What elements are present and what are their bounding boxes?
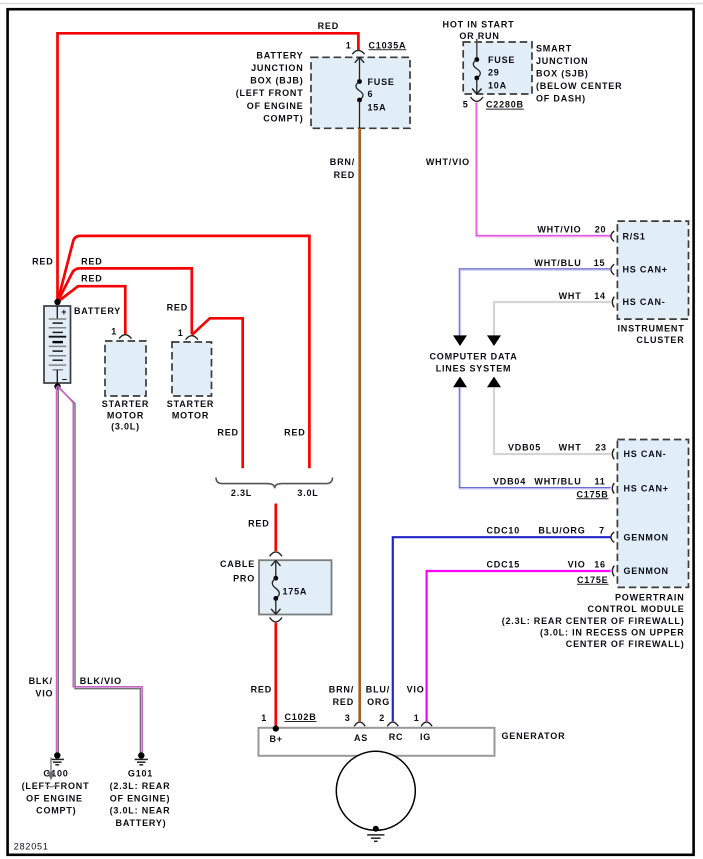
wire RED battery positive to 3.0L starter feed — [58, 236, 310, 468]
node battery positive junction — [54, 299, 60, 305]
wire RED engine feed to cable pro — [248, 504, 276, 552]
wire WHT/VIO SJB fuse 29 to instrument cluster R/S1 — [426, 103, 611, 237]
svg-text:STARTER: STARTER — [167, 399, 214, 409]
svg-text:HS CAN-: HS CAN- — [623, 297, 666, 307]
pin 16 connector GENMON — [612, 566, 669, 577]
instrument cluster module — [617, 221, 688, 345]
connector cable pro top — [270, 552, 282, 556]
svg-text:RED: RED — [32, 256, 53, 266]
svg-text:BLK/: BLK/ — [29, 676, 53, 686]
svg-text:+: + — [61, 307, 67, 317]
svg-text:VIO: VIO — [35, 689, 53, 699]
svg-text:C2280B: C2280B — [486, 100, 524, 110]
svg-text:VIO: VIO — [407, 684, 425, 694]
svg-text:(LEFT FRONT: (LEFT FRONT — [236, 88, 304, 98]
cable pro fuse 175A — [220, 559, 332, 615]
svg-text:6: 6 — [368, 89, 374, 99]
starter motor — [167, 328, 214, 420]
node battery negative junction — [54, 383, 60, 389]
svg-text:282051: 282051 — [14, 841, 49, 851]
svg-text:23: 23 — [595, 442, 607, 452]
wire RED cable pro to generator B+ — [251, 623, 276, 727]
svg-text:20: 20 — [595, 225, 607, 235]
pin 14 connector HS CAN- — [612, 297, 665, 308]
svg-text:R/S1: R/S1 — [623, 231, 646, 241]
svg-text:HS CAN-: HS CAN- — [624, 449, 667, 459]
svg-text:OF ENGINE: OF ENGINE — [247, 101, 304, 111]
svg-text:STARTER: STARTER — [102, 399, 149, 409]
wire BLK/VIO battery negative to G100 — [29, 387, 59, 754]
svg-text:C102B: C102B — [285, 712, 317, 722]
svg-text:BRN/: BRN/ — [329, 684, 354, 694]
svg-text:JUNCTION: JUNCTION — [251, 63, 303, 73]
svg-text:WHT: WHT — [559, 291, 582, 301]
smart junction box (SJB) — [463, 42, 622, 104]
connector C175B — [576, 489, 608, 499]
decorative top rule — [0, 3, 703, 5]
wire VIO PCM 16 to generator IG — [407, 559, 611, 721]
svg-text:COMPT): COMPT) — [36, 806, 76, 816]
wire WHT/BLU instrument cluster 15 to data link — [459, 258, 610, 335]
svg-text:1: 1 — [414, 713, 420, 723]
svg-text:29: 29 — [488, 67, 500, 77]
connector cable pro bottom — [270, 618, 282, 622]
svg-text:(2.3L: REAR CENTER OF FIREWALL: (2.3L: REAR CENTER OF FIREWALL) — [502, 616, 685, 626]
wire RED battery positive to starter motor (3.0L) pin 1 — [58, 274, 126, 334]
ground G101 — [110, 752, 171, 828]
pin 15 connector HS CAN+ — [611, 264, 668, 275]
wire RED battery positive to BJB fuse 6 pin 1 — [32, 21, 358, 304]
starter motor (3.0L) — [102, 327, 149, 432]
battery junction box (BJB) — [236, 50, 410, 128]
svg-text:LINES SYSTEM: LINES SYSTEM — [436, 364, 512, 374]
pin 1 connector C102B at generator B+ — [261, 712, 316, 723]
svg-text:CENTER OF FIREWALL): CENTER OF FIREWALL) — [566, 639, 685, 649]
connector C175E — [577, 575, 609, 585]
pin 1 connector C1035A — [346, 40, 407, 54]
svg-text:BRN/: BRN/ — [330, 157, 355, 167]
svg-text:RED: RED — [284, 427, 305, 437]
svg-text:POWERTRAIN: POWERTRAIN — [615, 593, 685, 603]
pin 1 connector starter motor (3.0L) — [119, 335, 131, 339]
svg-text:CLUSTER: CLUSTER — [636, 335, 684, 345]
svg-text:G101: G101 — [128, 769, 153, 779]
svg-text:RED: RED — [318, 21, 339, 31]
svg-text:WHT/BLU: WHT/BLU — [534, 477, 581, 487]
svg-text:FUSE: FUSE — [368, 77, 395, 87]
svg-text:C175B: C175B — [576, 489, 608, 499]
svg-text:11: 11 — [594, 477, 605, 487]
svg-text:FUSE: FUSE — [488, 55, 515, 65]
svg-text:(3.0L: IN RECESS ON UPPER: (3.0L: IN RECESS ON UPPER — [540, 627, 685, 637]
svg-text:(3.0L: NEAR: (3.0L: NEAR — [110, 806, 171, 816]
svg-text:BATTERY): BATTERY) — [116, 818, 167, 828]
svg-text:175A: 175A — [283, 587, 308, 597]
wire WHT data link to PCM 23 — [494, 387, 611, 454]
svg-text:−: − — [62, 375, 68, 385]
svg-text:(2.3L: REAR: (2.3L: REAR — [110, 781, 171, 791]
svg-text:1: 1 — [111, 327, 117, 337]
powertrain control module (PCM) — [502, 440, 689, 650]
svg-text:5: 5 — [463, 100, 469, 110]
svg-text:INSTRUMENT: INSTRUMENT — [618, 323, 685, 333]
svg-text:(3.0L): (3.0L) — [111, 422, 140, 432]
pin 5 connector C2280B — [463, 97, 524, 110]
svg-text:GENERATOR: GENERATOR — [502, 731, 566, 741]
svg-text:AS: AS — [354, 733, 368, 743]
svg-text:CDC15: CDC15 — [486, 559, 520, 569]
svg-text:G100: G100 — [43, 769, 68, 779]
svg-text:RED: RED — [217, 427, 238, 437]
svg-text:ORG: ORG — [367, 697, 390, 707]
svg-text:MOTOR: MOTOR — [107, 410, 144, 420]
wire BRN/RED BJB fuse 6 to generator AS — [329, 128, 360, 721]
svg-text:RED: RED — [334, 170, 355, 180]
svg-text:1: 1 — [346, 40, 352, 50]
svg-text:2.3L: 2.3L — [231, 488, 252, 498]
svg-text:14: 14 — [594, 291, 606, 301]
svg-text:RED: RED — [81, 274, 102, 284]
svg-text:COMPT): COMPT) — [263, 113, 303, 123]
svg-text:HS CAN+: HS CAN+ — [623, 265, 668, 275]
svg-text:BLU/: BLU/ — [366, 684, 390, 694]
svg-text:RED: RED — [333, 697, 354, 707]
svg-text:OF ENGINE: OF ENGINE — [26, 793, 83, 803]
svg-text:JUNCTION: JUNCTION — [536, 56, 588, 66]
svg-text:OF ENGINE): OF ENGINE) — [110, 793, 171, 803]
pin 1 connector starter motor — [186, 336, 198, 340]
svg-text:PRO: PRO — [233, 574, 255, 584]
svg-text:VIO: VIO — [568, 559, 586, 569]
svg-text:BOX (BJB): BOX (BJB) — [250, 76, 303, 86]
svg-text:VDB04: VDB04 — [493, 477, 526, 487]
fuse 29 10A — [472, 39, 515, 94]
pin 11 connector HS CAN+ — [612, 483, 669, 494]
svg-text:1: 1 — [178, 328, 184, 338]
svg-text:COMPUTER DATA: COMPUTER DATA — [429, 351, 517, 361]
svg-text:16: 16 — [594, 559, 606, 569]
svg-text:10A: 10A — [488, 81, 507, 91]
wire BLU/ORG PCM 7 to generator RC — [366, 526, 611, 722]
pin 2 connector generator RC — [379, 713, 398, 726]
svg-text:MOTOR: MOTOR — [172, 410, 209, 420]
svg-text:RED: RED — [248, 519, 269, 529]
svg-text:RED: RED — [167, 303, 188, 313]
svg-text:7: 7 — [599, 526, 605, 536]
svg-text:HOT IN START: HOT IN START — [443, 20, 515, 30]
node computer data lines system — [429, 335, 517, 387]
svg-text:C175E: C175E — [577, 575, 609, 585]
svg-text:GENMON: GENMON — [624, 566, 669, 576]
svg-text:GENMON: GENMON — [624, 532, 669, 542]
svg-text:BATTERY: BATTERY — [256, 50, 303, 60]
svg-text:15A: 15A — [368, 102, 387, 112]
pin 23 connector HS CAN- — [612, 449, 666, 460]
pin 7 connector GENMON — [611, 532, 669, 543]
wire RED starter motor pin 1 to 2.3L feed — [167, 303, 243, 469]
svg-text:B+: B+ — [270, 734, 283, 744]
brace 2.3L / 3.0L engine split — [216, 478, 333, 499]
svg-text:OR RUN: OR RUN — [459, 31, 499, 41]
svg-text:1: 1 — [261, 713, 267, 723]
svg-text:WHT: WHT — [559, 442, 582, 452]
svg-text:3: 3 — [345, 713, 351, 723]
pin 20 connector R/S1 — [611, 231, 646, 242]
svg-text:BLK/VIO: BLK/VIO — [80, 676, 122, 686]
pin 3 connector generator AS — [345, 713, 366, 726]
svg-text:RED: RED — [251, 684, 272, 694]
ground G100 — [22, 752, 90, 815]
svg-text:IG: IG — [420, 732, 431, 742]
battery BAT — [44, 306, 121, 385]
svg-text:WHT/BLU: WHT/BLU — [534, 258, 581, 268]
svg-text:WHT/VIO: WHT/VIO — [426, 157, 470, 167]
svg-text:15: 15 — [594, 258, 606, 268]
svg-text:BATTERY: BATTERY — [74, 306, 121, 316]
svg-text:RED: RED — [81, 256, 102, 266]
svg-text:CDC10: CDC10 — [486, 526, 520, 536]
wire BLK/VIO battery negative to G101 — [58, 386, 143, 754]
generator GEN — [259, 726, 566, 831]
wire WHT instrument cluster 14 to data link — [494, 291, 611, 336]
svg-text:HS CAN+: HS CAN+ — [624, 484, 669, 494]
svg-text:SMART: SMART — [536, 44, 572, 54]
svg-text:(BELOW CENTER: (BELOW CENTER — [536, 81, 622, 91]
svg-text:3.0L: 3.0L — [297, 488, 318, 498]
svg-text:VDB05: VDB05 — [508, 442, 541, 452]
svg-text:BOX (SJB): BOX (SJB) — [536, 69, 589, 79]
pin 1 connector generator IG — [414, 713, 432, 726]
fuse 6 15A — [355, 57, 395, 128]
wire WHT/BLU data link to PCM 11 — [459, 387, 610, 488]
svg-text:CONTROL MODULE: CONTROL MODULE — [587, 604, 684, 614]
net HOT IN START OR RUN — [443, 20, 515, 41]
svg-text:BLU/ORG: BLU/ORG — [538, 526, 585, 536]
ground generator case — [367, 826, 384, 842]
svg-text:RC: RC — [389, 732, 404, 742]
svg-text:WHT/VIO: WHT/VIO — [537, 225, 581, 235]
svg-text:OF DASH): OF DASH) — [536, 94, 586, 104]
wire RED battery positive to starter motor pin 1 — [58, 256, 192, 334]
svg-text:CABLE: CABLE — [220, 559, 255, 569]
svg-text:C1035A: C1035A — [369, 40, 407, 50]
svg-text:2: 2 — [379, 713, 385, 723]
